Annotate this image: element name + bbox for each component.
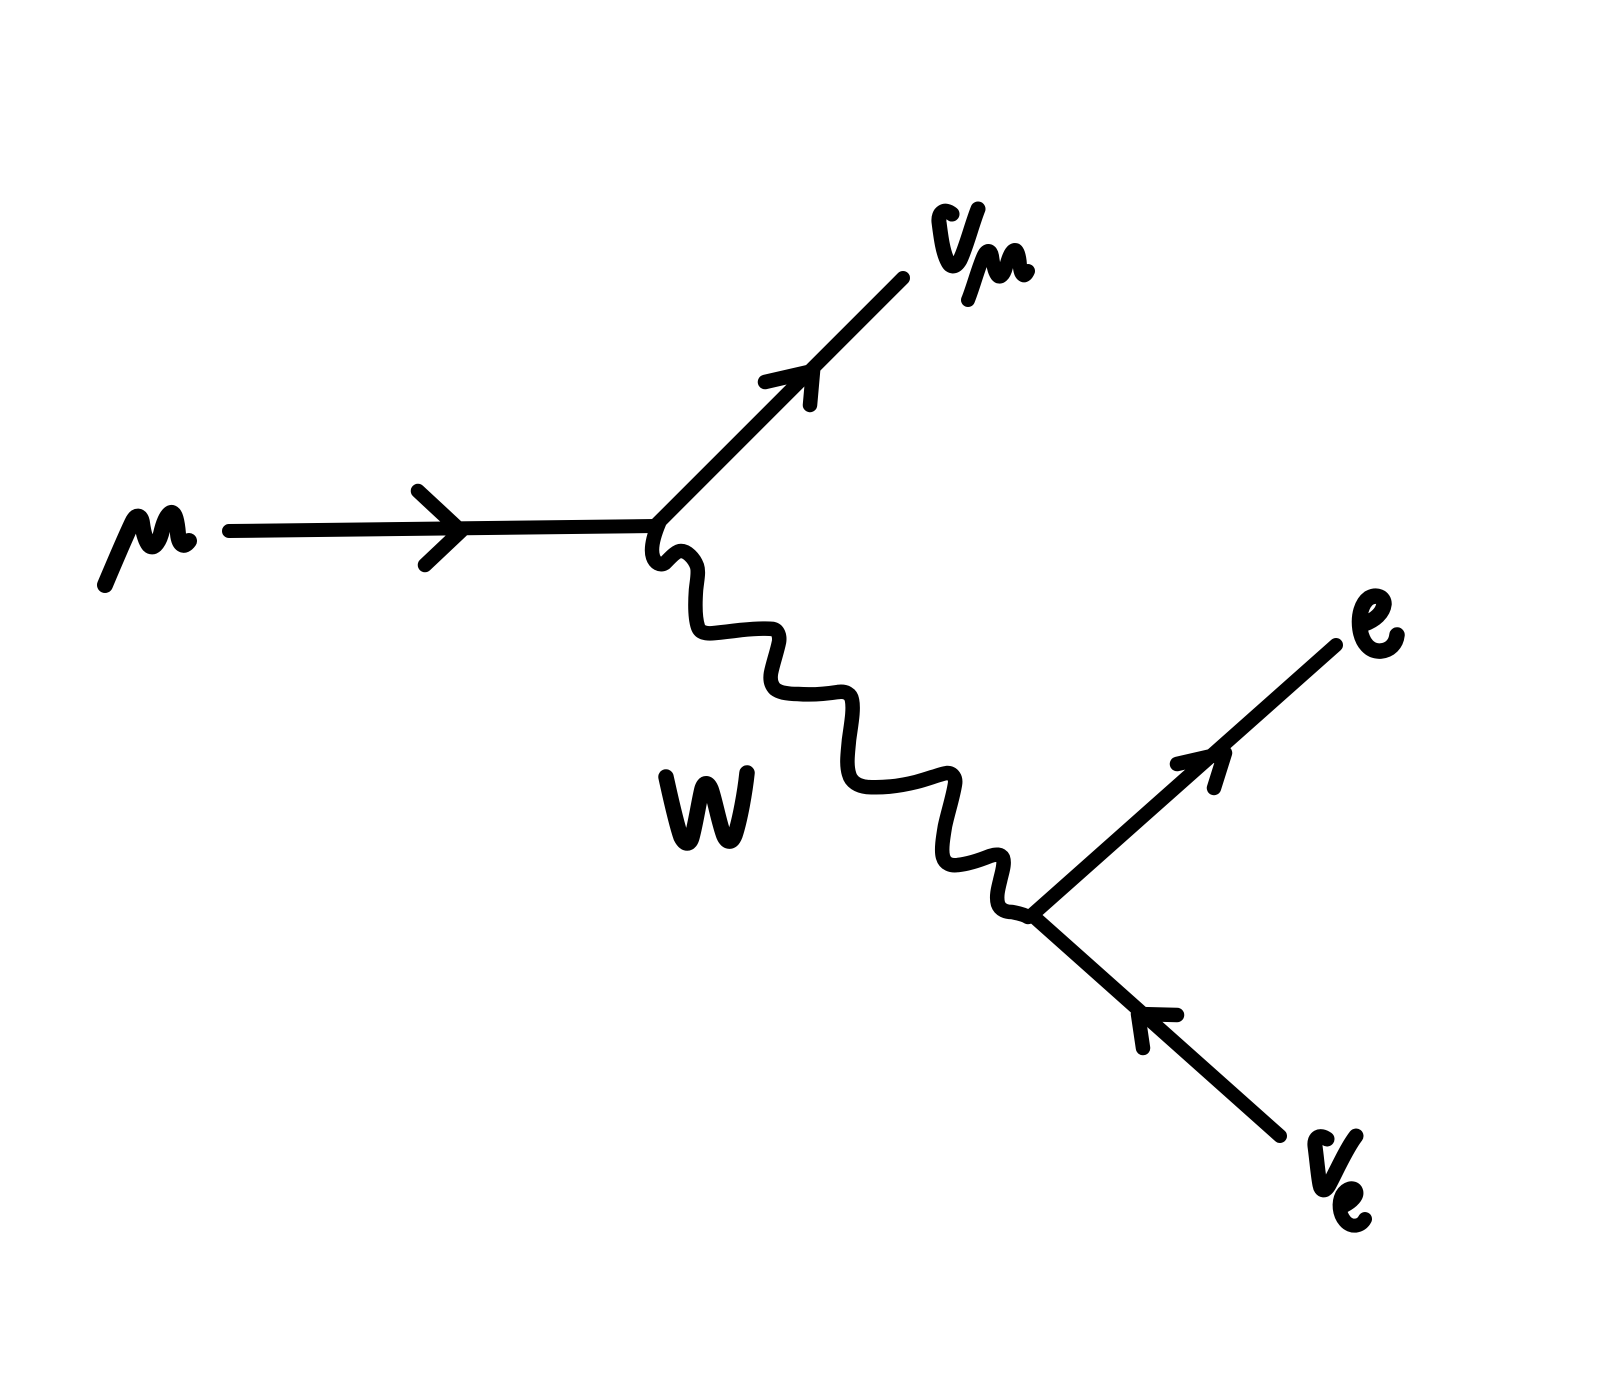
label nu_mu : nu bbox=[939, 209, 978, 266]
label nu_mu : mu subscript bbox=[968, 250, 1028, 300]
label W bbox=[666, 773, 747, 843]
label nu_e : nu bbox=[1315, 1136, 1356, 1190]
muon propagator line (horizontal) bbox=[229, 526, 655, 531]
arrow on anti-nu_e line (pointing up-left) bbox=[1138, 1014, 1177, 1048]
arrow on muon line bbox=[418, 491, 461, 565]
electron line (up-right from second vertex) bbox=[1032, 645, 1336, 915]
label nu_e : e subscript bbox=[1340, 1188, 1365, 1225]
arrow on electron line bbox=[1177, 753, 1225, 788]
nu_mu line (diagonal up-right) bbox=[655, 278, 903, 526]
anti-nu_e line (down-right from second vertex) bbox=[1032, 915, 1280, 1136]
arrow on nu_mu line bbox=[765, 371, 813, 405]
label mu (incoming muon) bbox=[105, 513, 189, 585]
W boson wavy propagator bbox=[652, 523, 1028, 917]
label e bbox=[1359, 596, 1397, 651]
